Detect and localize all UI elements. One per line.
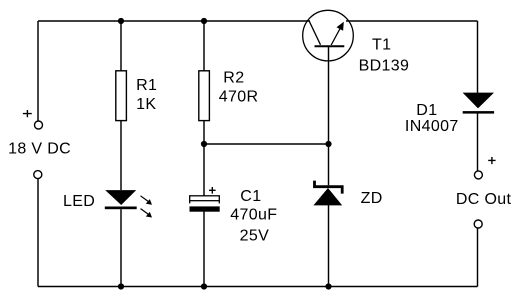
svg-text:18 V DC: 18 V DC — [8, 140, 71, 157]
terminal input positive — [35, 121, 43, 129]
capacitor C1 bottom plate — [190, 206, 220, 211]
svg-text:IN4007: IN4007 — [405, 118, 459, 135]
resistor R1 — [116, 71, 127, 121]
junction bottom rail at C1 — [201, 283, 207, 289]
wire top rail right segment — [346, 20, 478, 22]
wire R2 top — [203, 21, 205, 71]
svg-text:ZD: ZD — [361, 190, 383, 207]
wire left input drop — [37, 21, 39, 121]
wire R1 top — [120, 21, 122, 71]
wire R1 to LED — [120, 121, 122, 190]
terminal input negative — [34, 171, 42, 179]
junction top rail at R1 — [118, 18, 124, 24]
wire base node horizontal — [204, 143, 329, 145]
diode D1 — [463, 93, 495, 114]
LED light arrow 1 — [141, 196, 153, 205]
svg-text:470uF: 470uF — [230, 206, 277, 223]
wire bottom rail — [38, 286, 478, 288]
wire R2 to C1 — [203, 121, 205, 196]
junction base node at transistor — [325, 141, 331, 147]
svg-text:C1: C1 — [240, 188, 261, 205]
LED light arrow 2 — [141, 209, 153, 218]
junction base node at R2 — [201, 141, 207, 147]
junction bottom rail at LED — [118, 283, 124, 289]
svg-text:D1: D1 — [416, 102, 437, 119]
svg-text:470R: 470R — [219, 89, 259, 106]
svg-text:T1: T1 — [372, 36, 391, 53]
svg-text:R1: R1 — [136, 77, 157, 94]
svg-text:R2: R2 — [223, 70, 244, 87]
wire D1 to output plus terminal — [477, 114, 479, 172]
terminal output positive — [474, 171, 482, 179]
wire right drop to D1 — [477, 21, 479, 93]
wire C1 to bottom rail — [203, 212, 205, 287]
wire input negative drop — [37, 178, 39, 286]
wire output minus terminal to bottom rail — [477, 228, 479, 287]
capacitor C1 top plate — [190, 196, 220, 204]
transistor T1 — [303, 10, 354, 61]
svg-text:DC Out: DC Out — [456, 191, 512, 208]
wire zener to bottom rail — [328, 205, 330, 287]
label + (input) — [23, 110, 32, 117]
junction bottom rail at ZD — [325, 283, 331, 289]
wire base lead to zener — [328, 46, 330, 185]
wire LED to bottom rail — [120, 209, 122, 286]
terminal output negative — [474, 220, 482, 228]
svg-text:BD139: BD139 — [359, 58, 410, 75]
label + (C1 polarity) — [209, 187, 216, 194]
wire top rail left segment — [38, 20, 310, 22]
resistor R2 — [199, 71, 210, 121]
zener diode ZD — [313, 181, 344, 206]
svg-text:1K: 1K — [136, 96, 156, 113]
LED D (diode triangle and cathode bar) — [105, 190, 137, 209]
label + (output) — [488, 157, 495, 164]
svg-text:LED: LED — [63, 193, 95, 210]
junction top rail at R2 — [201, 18, 207, 24]
svg-text:25V: 25V — [240, 227, 270, 244]
